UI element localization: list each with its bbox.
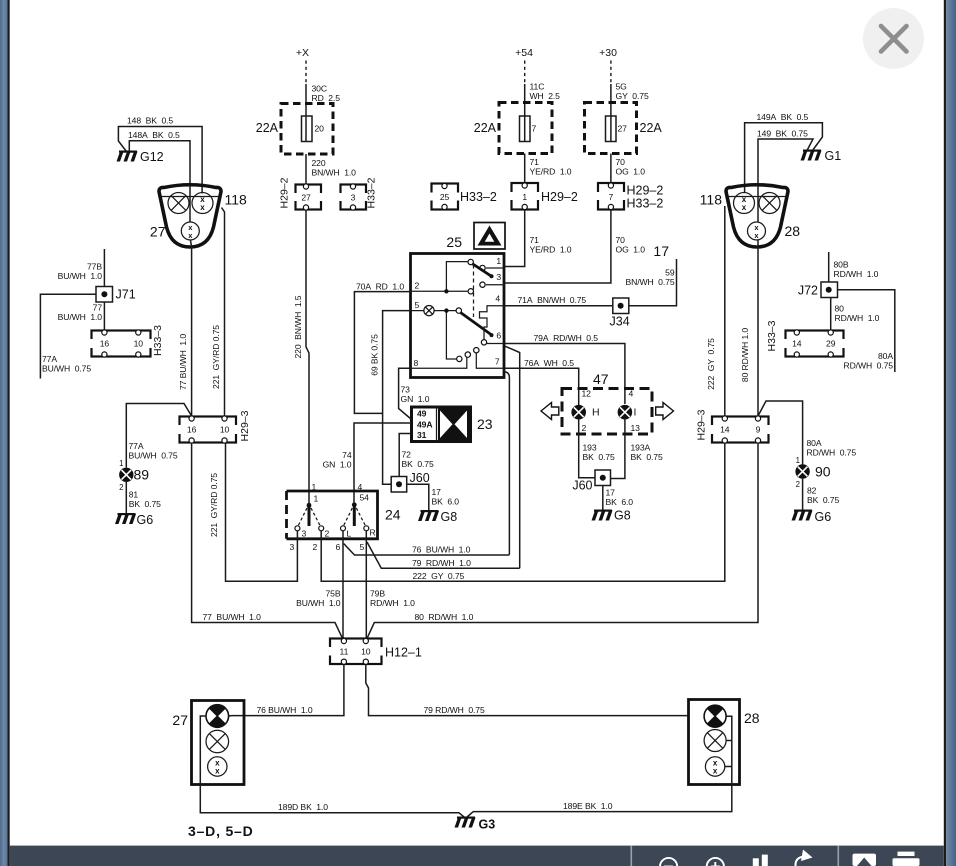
svg-text:23: 23 [477, 416, 493, 432]
svg-text:5: 5 [360, 542, 365, 552]
wire 80 RD/WH 1.0 to H12-1 pin 10 [367, 443, 759, 640]
wire 81 BK 0.75 lamp 89 to G6 [125, 482, 127, 514]
wire 221 GY/RD from pin 3 [226, 443, 298, 581]
wire 77 BU/WH 1.0 to H12-1 pin 11 [192, 443, 343, 640]
svg-text:149 BK 0.75: 149 BK 0.75 [757, 128, 808, 138]
wire 189E BK 1.0 rear 28 ground [467, 785, 732, 817]
wire 70A RD 1.0 [354, 292, 410, 414]
ground G12 [117, 151, 138, 162]
hazard lower contacts arc [457, 348, 479, 362]
svg-text:6: 6 [336, 542, 341, 552]
left page border line [8, 0, 10, 866]
svg-text:148 BK 0.5: 148 BK 0.5 [127, 116, 173, 126]
hazard switch box 25 [411, 254, 505, 378]
wire 71 YE/RD fuse to connector [524, 154, 526, 185]
hazard pin 3 contact [480, 282, 504, 287]
rear 27 small lamp [208, 757, 227, 776]
wire 74 GN 1.0 flasher 49A to switch 24 [354, 423, 411, 504]
wire 30C RD 2.5 [305, 84, 307, 116]
toolbar separator 2 [838, 846, 840, 866]
svg-text:6: 6 [496, 331, 501, 341]
svg-text:24: 24 [385, 507, 401, 523]
svg-text:3: 3 [290, 542, 295, 552]
svg-text:4: 4 [629, 389, 634, 399]
left page edge strip [0, 0, 8, 866]
svg-text:H: H [592, 407, 600, 419]
svg-text:G12: G12 [140, 150, 164, 164]
wire 77B BU/WH 1.0 stub [103, 249, 105, 287]
right page border line [944, 0, 946, 866]
svg-text:27: 27 [172, 712, 188, 728]
left arrow symbol [541, 403, 559, 420]
svg-text:3–D, 5–D: 3–D, 5–D [188, 823, 254, 839]
connector H29-3 left pins 16 10 [178, 416, 239, 443]
lamp X circle in cluster 27 [168, 193, 189, 214]
svg-text:GY 0.75: GY 0.75 [616, 91, 649, 101]
svg-text:BK 6.0: BK 6.0 [432, 497, 460, 507]
rear 28 turn signal lamp [704, 705, 726, 727]
front lamp cluster 28 (right) [726, 185, 788, 247]
svg-text:20: 20 [315, 124, 325, 134]
toolbar separator 1 [631, 846, 633, 866]
svg-text:H29–3: H29–3 [239, 410, 251, 441]
svg-text:31: 31 [417, 430, 427, 440]
svg-text:59: 59 [665, 268, 675, 278]
svg-text:2: 2 [415, 281, 420, 291]
svg-text:x: x [713, 767, 718, 776]
svg-text:14: 14 [720, 425, 730, 435]
hazard pin 6 contact [481, 340, 504, 345]
svg-text:221 GY/RD 0.75: 221 GY/RD 0.75 [209, 473, 219, 537]
connector H33-2 H29-2 pin 1 [510, 183, 541, 210]
toolbar image icon [853, 854, 877, 866]
toolbar fit-width icon [753, 855, 768, 866]
wire 71A BN/WH 0.75 to J34 [505, 305, 613, 307]
svg-text:148A BK 0.5: 148A BK 0.5 [128, 130, 180, 140]
lamp xx circle in cluster 27 [192, 193, 213, 214]
wire 80A RD/WH 0.75 to lamp 90 [758, 401, 803, 465]
svg-text:79B: 79B [370, 589, 385, 599]
svg-text:27: 27 [301, 193, 311, 203]
svg-text:28: 28 [785, 223, 801, 239]
svg-text:9: 9 [756, 425, 761, 435]
svg-text:BK 0.75: BK 0.75 [129, 499, 161, 509]
wire lamp H top pin [578, 404, 580, 405]
svg-text:90: 90 [815, 464, 831, 480]
wire 70 OG to hazard switch pin 3 [505, 210, 611, 284]
wire +X dashed feed [305, 61, 307, 85]
svg-text:118: 118 [700, 192, 723, 208]
wire 80B RD/WH 1.0 stub [828, 252, 830, 282]
fuse box 22A no.7 [499, 103, 552, 154]
svg-text:YE/RD 1.0: YE/RD 1.0 [530, 167, 572, 177]
hazard pin 2 internal path [411, 262, 474, 294]
svg-text:RD/WH 1.0: RD/WH 1.0 [834, 269, 879, 279]
svg-text:J60: J60 [572, 479, 592, 493]
svg-text:G8: G8 [441, 510, 458, 524]
wire 71 YE/RD to hazard switch pin 1 [505, 210, 525, 267]
connector H33-3 right pins 14 29 [784, 330, 846, 357]
lamp small circle in cluster 28 [748, 222, 766, 240]
svg-text:79A RD/WH 0.5: 79A RD/WH 0.5 [534, 333, 599, 343]
svg-text:49A: 49A [417, 420, 432, 430]
svg-text:RD/WH 1.0: RD/WH 1.0 [835, 313, 880, 323]
svg-text:BK 0.75: BK 0.75 [807, 495, 839, 505]
svg-text:+X: +X [296, 47, 309, 59]
rear lamp unit 27 [192, 701, 245, 785]
wire 17 BK 6.0 J60 to G8 left [407, 484, 429, 510]
svg-text:29: 29 [826, 339, 836, 349]
svg-text:8: 8 [414, 358, 419, 368]
flasher unit 23 [412, 407, 471, 442]
svg-text:25: 25 [446, 234, 462, 250]
svg-text:77: 77 [93, 303, 103, 313]
svg-text:49: 49 [417, 409, 427, 419]
svg-text:77B: 77B [87, 262, 102, 272]
svg-text:77 BU/WH 1.0: 77 BU/WH 1.0 [178, 334, 188, 390]
rear 27 tail lamp [206, 730, 229, 753]
wire 220 BN/WH 1.5 long run to switch 24 pin 1 [306, 210, 309, 505]
lamp I (right indicator) [618, 405, 633, 420]
wire 80 RD/WH 1.0 J72 to H33-3 [830, 298, 832, 331]
wire 148A BK 0.5 [129, 141, 190, 222]
wire 80A RD/WH 0.75 stub from J72 [838, 290, 895, 372]
wire 79 branch down from pin 6 [505, 346, 520, 568]
svg-text:25: 25 [440, 192, 450, 202]
svg-text:73: 73 [401, 385, 411, 395]
svg-text:193: 193 [583, 443, 597, 453]
wire 77A BU/WH 0.75 stub from J71 [40, 294, 96, 378]
svg-text:222 GY 0.75: 222 GY 0.75 [706, 338, 716, 390]
rear 27 turn signal lamp [206, 705, 229, 728]
svg-text:x: x [200, 203, 205, 212]
svg-text:5G: 5G [616, 82, 628, 92]
rear 28 small lamp [705, 757, 724, 776]
wire 70 OG fuse to connector [610, 154, 612, 185]
svg-text:G6: G6 [137, 513, 154, 527]
ground G3 [455, 817, 476, 828]
wire 222 GY 0.75 cluster to H29-3 [724, 206, 726, 416]
toolbar share icon [795, 850, 812, 866]
svg-text:118: 118 [225, 192, 248, 208]
hazard pin 1 contact [480, 265, 504, 270]
ground G1 [801, 150, 822, 161]
junction J60 left [391, 477, 407, 493]
svg-text:77A: 77A [42, 354, 57, 364]
svg-text:G3: G3 [479, 818, 496, 832]
connector H29-3 right pins 14 9 [710, 416, 771, 443]
toolbar zoom-out icon [660, 858, 677, 866]
svg-text:H29–2: H29–2 [279, 177, 291, 208]
svg-text:71A BN/WH 0.75: 71A BN/WH 0.75 [518, 295, 587, 305]
right page edge strip [946, 0, 956, 866]
hazard pin 7 internal path [476, 353, 504, 368]
svg-text:1: 1 [314, 494, 319, 504]
svg-text:80A: 80A [807, 438, 822, 448]
svg-text:BU/WH 0.75: BU/WH 0.75 [42, 364, 91, 374]
junction J34 [613, 298, 629, 314]
svg-text:G6: G6 [815, 510, 832, 524]
wire 59 BN/WH 0.75 J34 to 17 [629, 259, 677, 306]
svg-text:81: 81 [129, 490, 139, 500]
svg-text:3: 3 [302, 529, 307, 539]
wire 69 BK 0.75 [383, 311, 411, 485]
svg-text:GN 1.0: GN 1.0 [323, 460, 352, 470]
svg-text:220 BN/WH 1.5: 220 BN/WH 1.5 [293, 295, 303, 358]
wire 77 BU/WH 1.0 J71 to H33-3 [103, 302, 105, 330]
svg-text:70: 70 [616, 157, 626, 167]
svg-text:7: 7 [495, 357, 500, 367]
hazard dashed link [473, 265, 475, 318]
svg-text:5: 5 [415, 300, 420, 310]
svg-text:75B: 75B [326, 589, 341, 599]
lamp X circle in cluster 28 [759, 193, 780, 214]
svg-text:4: 4 [495, 294, 500, 304]
wire rear 28 ground chain [725, 716, 732, 785]
svg-text:22A: 22A [474, 121, 497, 135]
svg-text:74: 74 [342, 450, 352, 460]
svg-text:BU/WH 0.75: BU/WH 0.75 [129, 451, 178, 461]
lamp 90 [795, 464, 809, 478]
svg-text:YE/RD 1.0: YE/RD 1.0 [530, 245, 572, 255]
toolbar zoom-in icon [707, 858, 724, 866]
svg-text:80A: 80A [878, 351, 893, 361]
bottom toolbar [10, 846, 944, 866]
junction J60 right [595, 470, 611, 486]
lamp xx circle in cluster 28 [734, 193, 755, 214]
svg-text:221 GY/RD 0.75: 221 GY/RD 0.75 [211, 325, 221, 389]
svg-text:3: 3 [351, 193, 356, 203]
wire 221 GY/RD 0.75 cluster to H29-3 [222, 208, 225, 417]
svg-text:149A BK 0.5: 149A BK 0.5 [757, 112, 809, 122]
svg-text:17: 17 [653, 243, 669, 259]
hazard pin 5 branch to lower contact [446, 313, 456, 360]
wire 79 RD/WH branch from pin R [367, 542, 520, 568]
svg-text:BK 0.75: BK 0.75 [402, 459, 434, 469]
svg-text:H12–1: H12–1 [385, 646, 422, 660]
hazard upper arm [468, 259, 494, 278]
svg-text:1: 1 [796, 456, 800, 465]
svg-text:RD/WH 0.75: RD/WH 0.75 [843, 361, 893, 371]
wire 79B RD/WH from pin R to H12-1 [365, 531, 367, 640]
svg-text:70A RD 1.0: 70A RD 1.0 [356, 281, 404, 291]
wire 193A BK 0.75 lamp I to J60 [611, 420, 625, 479]
wire 76 BU/WH 1.0 H12-1 to rear lamp 27 [232, 665, 344, 716]
turn signal switch box 24 [287, 491, 378, 539]
svg-text:BK 0.75: BK 0.75 [583, 452, 615, 462]
svg-text:27: 27 [150, 224, 166, 240]
wire 149 BK 0.75 [758, 139, 813, 222]
svg-text:+30: +30 [599, 47, 617, 59]
fuse element 27 [606, 116, 617, 142]
svg-text:10: 10 [134, 339, 144, 349]
svg-text:69 BK 0.75: 69 BK 0.75 [370, 334, 380, 376]
connector H33-3 left pins 16 10 [90, 330, 153, 357]
svg-text:H33–2: H33–2 [366, 177, 378, 208]
svg-text:J71: J71 [116, 288, 136, 302]
svg-text:10: 10 [220, 425, 230, 435]
svg-text:17: 17 [432, 487, 442, 497]
svg-text:80B: 80B [834, 260, 849, 270]
connector H29-2 pin 27 [294, 184, 324, 210]
svg-text:BK 0.75: BK 0.75 [631, 452, 663, 462]
svg-text:12: 12 [582, 389, 592, 399]
toolbar print icon [893, 852, 920, 866]
lamp H (left indicator) [571, 405, 586, 420]
svg-text:1: 1 [312, 482, 317, 492]
ground G6 right [792, 510, 813, 521]
svg-text:x: x [742, 203, 747, 212]
wire 75B BU/WH from pin L to H12-1 [342, 531, 344, 640]
svg-text:80 RD/WH 1.0: 80 RD/WH 1.0 [415, 612, 474, 622]
svg-text:16: 16 [100, 339, 110, 349]
svg-text:22A: 22A [640, 121, 663, 135]
svg-text:RD/WH 0.75: RD/WH 0.75 [807, 448, 857, 458]
svg-text:2: 2 [582, 423, 587, 433]
fuse element 7 [520, 116, 531, 142]
switch 24 left pole [295, 503, 324, 531]
svg-text:47: 47 [593, 371, 609, 387]
hazard warning triangle icon [474, 223, 505, 250]
wire 5G GY 0.75 [610, 84, 612, 116]
svg-text:3: 3 [496, 272, 501, 282]
svg-text:H33–3: H33–3 [152, 325, 164, 356]
fuse box 22A no.20 [281, 104, 333, 155]
connector H33-2 pin 3 [339, 184, 369, 210]
svg-text:22A: 22A [256, 121, 279, 135]
lamp 89 [119, 468, 133, 482]
wire 193 BK 0.75 lamp H to J60 [579, 420, 595, 478]
svg-text:H29–3: H29–3 [696, 409, 708, 440]
wire 77 BU/WH 1.0 cluster to H29-3 [191, 241, 192, 417]
svg-text:7: 7 [532, 124, 537, 134]
hazard lower arm [461, 313, 494, 338]
svg-text:H33–3: H33–3 [766, 320, 778, 351]
svg-text:89: 89 [134, 467, 150, 483]
wire 222 GY from pin 2 [321, 443, 725, 581]
svg-text:79 RD/WH 0.75: 79 RD/WH 0.75 [424, 705, 485, 715]
svg-text:+54: +54 [515, 47, 533, 59]
wire +30 dashed feed [610, 61, 612, 85]
wire +54 dashed feed [524, 61, 526, 85]
ground G6 left [115, 513, 136, 524]
ground G8 left [418, 510, 439, 521]
connector H29-2 H33-2 pin 7 [596, 183, 626, 210]
svg-text:x: x [215, 767, 220, 776]
wire 77A BU/WH 0.75 to lamp 89 [126, 404, 191, 468]
svg-text:193A: 193A [631, 443, 651, 453]
wire 17 BK 6.0 J60 to G8 right [602, 486, 604, 510]
svg-text:2: 2 [119, 483, 123, 492]
ground G8 right [592, 510, 613, 521]
svg-text:76 BU/WH 1.0: 76 BU/WH 1.0 [412, 545, 471, 555]
svg-text:H33–2: H33–2 [627, 197, 664, 211]
svg-text:77A: 77A [129, 441, 144, 451]
wire 73 GN 1.0 hazard pin 8 to flasher [399, 368, 411, 419]
svg-text:OG 1.0: OG 1.0 [616, 167, 646, 177]
front lamp cluster 27 (left) [159, 185, 221, 247]
svg-text:H29–2: H29–2 [541, 190, 578, 204]
wire 148 BK 0.5 [118, 127, 202, 194]
svg-text:H33–2: H33–2 [460, 190, 497, 204]
svg-text:220: 220 [312, 158, 326, 168]
svg-text:54: 54 [360, 493, 370, 503]
wire 220 BN/WH 1.0 fuse to connector [305, 154, 307, 185]
svg-text:70: 70 [616, 235, 626, 245]
hazard pin 4 zigzag [480, 306, 505, 340]
svg-text:76A WH 0.5: 76A WH 0.5 [524, 358, 574, 368]
junction J71 [96, 287, 113, 303]
rear 28 tail lamp [704, 730, 726, 752]
svg-text:1: 1 [496, 256, 501, 266]
wire 149A BK 0.5 [745, 123, 823, 193]
svg-text:WH 2.5: WH 2.5 [530, 91, 561, 101]
svg-text:J34: J34 [610, 315, 630, 329]
switch 24 right pole [341, 502, 369, 530]
svg-text:RD/WH 1.0: RD/WH 1.0 [370, 598, 415, 608]
wire 80 RD/WH 1.0 cluster to H29-3 [757, 241, 759, 417]
svg-text:2: 2 [325, 529, 330, 539]
right arrow symbol [656, 403, 674, 420]
svg-text:77 BU/WH 1.0: 77 BU/WH 1.0 [203, 612, 262, 622]
lamp small circle in cluster 27 [181, 222, 199, 240]
svg-text:BK 6.0: BK 6.0 [606, 497, 634, 507]
svg-text:GN 1.0: GN 1.0 [401, 394, 430, 404]
svg-text:R: R [370, 528, 376, 538]
svg-text:79 RD/WH 1.0: 79 RD/WH 1.0 [412, 558, 471, 568]
svg-text:L: L [347, 529, 352, 539]
wire rear 27 lamp stub right [229, 715, 232, 717]
svg-text:4: 4 [358, 482, 363, 492]
svg-text:17: 17 [606, 488, 616, 498]
junction J72 [821, 282, 838, 298]
wire 79A RD/WH 0.5 [505, 344, 625, 405]
svg-text:71: 71 [530, 235, 540, 245]
svg-text:27: 27 [618, 124, 628, 134]
close button [863, 8, 924, 69]
fuse element 20 [302, 116, 313, 142]
svg-text:BN/WH 1.0: BN/WH 1.0 [312, 168, 357, 178]
svg-text:2: 2 [796, 480, 800, 489]
svg-text:72: 72 [402, 450, 412, 460]
wire 82 BK 0.75 lamp 90 to G6 [802, 479, 804, 510]
svg-text:28: 28 [744, 710, 760, 726]
svg-text:10: 10 [361, 647, 371, 657]
svg-text:7: 7 [609, 192, 614, 202]
svg-text:BU/WH 1.0: BU/WH 1.0 [58, 312, 103, 322]
svg-text:BU/WH 1.0: BU/WH 1.0 [296, 598, 341, 608]
svg-text:2: 2 [313, 542, 318, 552]
wire 76 branch down from pin 7 [505, 372, 509, 555]
indicator unit box 47 dashed [562, 389, 652, 435]
connector H33-2 pin 25 [430, 183, 461, 209]
connector H12-1 pins 11 10 [328, 638, 384, 664]
svg-text:80 RD/WH 1.0: 80 RD/WH 1.0 [740, 328, 750, 383]
wire 79 RD/WH 0.75 H12-1 to rear lamp 28 [366, 665, 688, 716]
svg-text:G8: G8 [614, 509, 631, 523]
svg-text:80: 80 [835, 304, 845, 314]
svg-text:RD 2.5: RD 2.5 [312, 93, 341, 103]
svg-text:1: 1 [522, 192, 527, 202]
svg-text:82: 82 [807, 486, 817, 496]
wire 76A WH 0.5 [505, 368, 579, 404]
svg-text:BN/WH 0.75: BN/WH 0.75 [625, 277, 674, 287]
svg-text:76 BU/WH 1.0: 76 BU/WH 1.0 [257, 705, 313, 715]
hazard pin 8 internal path [411, 358, 467, 369]
svg-text:189D BK 1.0: 189D BK 1.0 [278, 802, 328, 812]
wire 189D BK 1.0 rear 27 ground [200, 716, 465, 818]
wire 76 BU/WH branch from pin L [344, 544, 510, 556]
